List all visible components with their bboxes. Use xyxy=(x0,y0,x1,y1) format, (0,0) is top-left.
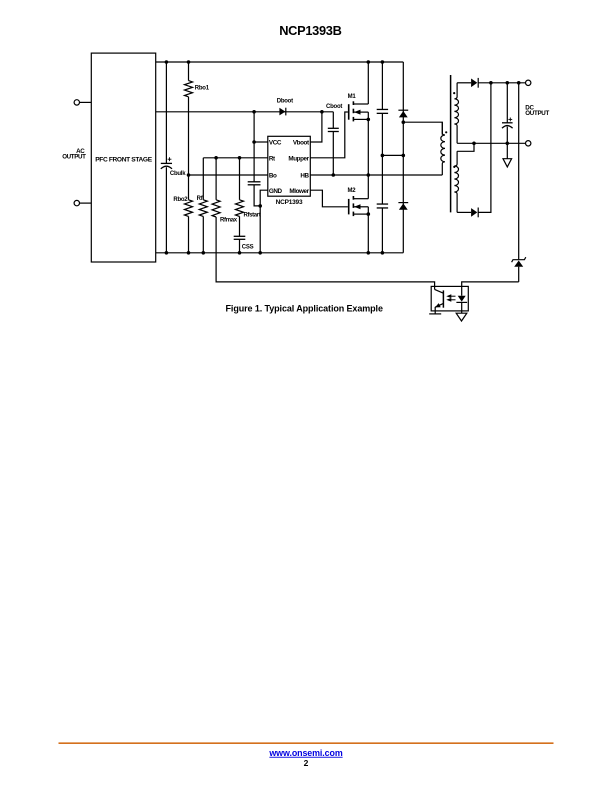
junction Vboot riser on aux line xyxy=(320,110,324,114)
junction center tap xyxy=(472,142,476,146)
inductor secondary upper xyxy=(454,83,458,144)
wire output plus rail xyxy=(478,82,525,84)
junction Cvcc at GND return xyxy=(258,204,262,208)
transformer core xyxy=(450,75,452,212)
diode rectifier upper xyxy=(471,78,478,88)
polarity dot secondary upper xyxy=(453,92,455,94)
junction primary tap xyxy=(402,120,406,124)
capacitor Cout xyxy=(502,83,513,144)
wire zener to optocoupler LED xyxy=(462,282,519,287)
pin label Mlower xyxy=(289,188,309,195)
AC terminal bottom xyxy=(74,200,79,205)
capacitor Cvcc xyxy=(248,142,261,206)
block PFC front stage xyxy=(91,53,155,262)
label DC OUTPUT xyxy=(525,105,549,117)
svg-text:GND: GND xyxy=(269,188,283,195)
resistor Rbo2 xyxy=(173,175,192,253)
label NCP1393 xyxy=(276,199,303,206)
svg-text:OUTPUT: OUTPUT xyxy=(525,110,549,117)
svg-text:Vboot: Vboot xyxy=(293,140,310,147)
wire M2 drain to HB xyxy=(367,175,369,199)
ground opto transistor xyxy=(429,313,441,315)
svg-text:Figure 1. Typical Application: Figure 1. Typical Application Example xyxy=(226,303,383,313)
resistor Rfstart xyxy=(236,158,261,219)
pin label VCC xyxy=(269,140,282,147)
wire Rfmax to optocoupler xyxy=(216,217,435,286)
svg-text:Rfmax: Rfmax xyxy=(220,218,238,224)
junction resonant caps top bus xyxy=(381,60,385,64)
resistor Rf xyxy=(197,158,208,253)
pin label Vboot xyxy=(293,140,310,147)
junction caps midpoint xyxy=(381,154,385,158)
wire Rbo1 to Bo node xyxy=(188,97,190,175)
wire rectifier lower to plus rail xyxy=(478,83,491,213)
terminal DC output minus xyxy=(526,141,531,146)
junction Rbo1 top bus xyxy=(187,60,191,64)
svg-text:NCP1393B: NCP1393B xyxy=(279,23,341,38)
wire M1 source to HB xyxy=(367,119,369,175)
wire caps to diode midpoint xyxy=(382,154,403,156)
junction lower cathode at rail xyxy=(489,81,493,85)
pin label GND xyxy=(269,188,283,195)
wire between resonant caps xyxy=(381,113,383,204)
caption Figure 1 xyxy=(226,303,383,313)
junction GND return bottom bus xyxy=(258,251,262,255)
svg-text:Mlower: Mlower xyxy=(289,188,309,195)
junction M1 drain top bus xyxy=(367,60,371,64)
wire output return xyxy=(474,142,526,144)
polarity dot secondary lower xyxy=(453,166,455,168)
wire AC top to PFC xyxy=(80,101,92,103)
junction Bo node xyxy=(187,173,191,177)
junction Cbulk bottom bus xyxy=(165,251,169,255)
svg-text:OUTPUT: OUTPUT xyxy=(62,153,86,160)
svg-text:M1: M1 xyxy=(348,94,357,100)
junction CSS bottom bus xyxy=(238,251,242,255)
capacitor Cbulk xyxy=(161,62,186,253)
junction M2 source node xyxy=(367,212,371,216)
wire VCC aux line xyxy=(156,111,334,113)
wire HB line xyxy=(310,174,442,176)
junction Rf bottom bus xyxy=(202,251,206,255)
pin label HB xyxy=(300,173,309,180)
wire M1 drain to top bus xyxy=(367,62,369,104)
capacitor CSS xyxy=(234,216,254,252)
svg-text:Dboot: Dboot xyxy=(277,99,293,105)
junction Cbulk top bus xyxy=(165,60,169,64)
capacitor resonant lower xyxy=(377,204,388,253)
wire center tap jog xyxy=(457,143,474,151)
ground output xyxy=(503,143,512,167)
title NCP1393B xyxy=(279,23,341,38)
junction Rbo2 bottom bus xyxy=(187,251,191,255)
capacitor resonant upper xyxy=(377,62,388,113)
pin label Rt xyxy=(269,155,276,162)
zener diode feedback xyxy=(512,257,526,282)
wire primary top xyxy=(403,122,442,135)
svg-text:M2: M2 xyxy=(347,188,356,194)
svg-text:HB: HB xyxy=(300,173,309,180)
wire bottom ground bus xyxy=(156,252,404,254)
svg-text:Bo: Bo xyxy=(269,173,277,180)
junction Rfstart on Rt line xyxy=(238,156,242,160)
junction output cap at rail xyxy=(506,81,510,85)
label AC OUTPUT xyxy=(62,148,86,161)
wire Bo line xyxy=(189,174,268,176)
wire feedback from rail to zener xyxy=(518,83,520,259)
footer rule xyxy=(59,742,554,744)
opto phototransistor xyxy=(435,286,444,314)
transistor M1 xyxy=(348,94,369,121)
capacitor Cboot xyxy=(326,104,342,175)
wire VCC riser xyxy=(254,112,268,142)
svg-text:PFC FRONT STAGE: PFC FRONT STAGE xyxy=(95,157,152,164)
junction VCC aux at riser xyxy=(252,110,256,114)
svg-text:VCC: VCC xyxy=(269,140,282,147)
junction Rfmax on Rt line xyxy=(214,156,218,160)
svg-text:Rbo2: Rbo2 xyxy=(173,197,188,203)
junction M2 bottom bus xyxy=(367,251,371,255)
wire center tap xyxy=(457,142,474,144)
pin label Bo xyxy=(269,173,277,180)
junction resonant caps bottom bus xyxy=(381,251,385,255)
svg-text:Rbo1: Rbo1 xyxy=(195,85,210,91)
terminal DC output plus xyxy=(526,80,531,85)
svg-text:Mupper: Mupper xyxy=(288,155,309,162)
resistor Rbo1 xyxy=(185,62,210,97)
wire clamp diode string xyxy=(402,62,404,253)
resistor Rfmax xyxy=(212,158,238,224)
diode clamp lower xyxy=(398,203,408,210)
wire M2 source to bottom bus xyxy=(367,214,369,253)
transistor M2 xyxy=(347,188,368,216)
svg-text:Rfstart: Rfstart xyxy=(244,213,261,219)
optocoupler box xyxy=(431,286,468,311)
wire secondary bottom to rectifier xyxy=(457,211,471,213)
wire top bus PFC output rail xyxy=(156,61,404,63)
junction diode midpoint xyxy=(402,154,406,158)
junction VCC pin node xyxy=(252,140,256,144)
wire GND pin return xyxy=(260,190,268,253)
wire Mupper to M1 gate xyxy=(310,112,348,158)
polarity dot primary xyxy=(445,131,447,133)
svg-text:www.onsemi.com: www.onsemi.com xyxy=(268,748,342,758)
junction output cap at return xyxy=(506,142,510,146)
svg-text:2: 2 xyxy=(304,758,309,768)
wire Rt line xyxy=(203,157,267,159)
wire Vboot xyxy=(310,112,322,142)
ground opto LED xyxy=(456,313,467,321)
wire secondary top to rectifier xyxy=(457,82,471,84)
footer page number xyxy=(304,758,309,768)
junction M1 source node xyxy=(367,118,371,122)
svg-text:Cbulk: Cbulk xyxy=(170,171,186,177)
diode Dboot xyxy=(277,99,293,116)
wire Mlower to M2 gate xyxy=(310,190,348,207)
footer link www.onsemi.com xyxy=(268,748,342,758)
junction Cboot at HB line xyxy=(332,173,336,177)
inductor secondary lower xyxy=(454,151,458,212)
junction HB node xyxy=(367,173,371,177)
junction feedback tap at rail xyxy=(517,81,521,85)
inductor primary winding xyxy=(441,122,445,175)
AC terminal top xyxy=(74,100,79,105)
svg-text:Cboot: Cboot xyxy=(326,104,342,110)
op-amp U1 NCP1393 controller box xyxy=(268,136,311,196)
pin label Mupper xyxy=(288,155,309,162)
diode rectifier lower xyxy=(471,208,478,218)
wire AC bottom to PFC xyxy=(80,202,92,204)
opto LED xyxy=(456,286,467,313)
opto light arrows xyxy=(446,294,455,301)
diode clamp upper xyxy=(398,110,408,117)
svg-text:CSS: CSS xyxy=(242,244,254,250)
svg-text:NCP1393: NCP1393 xyxy=(276,199,303,206)
